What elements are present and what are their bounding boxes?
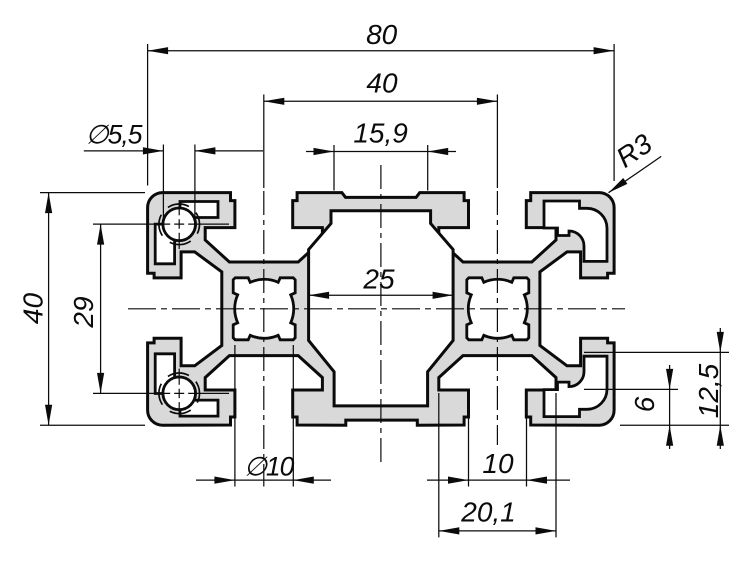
dim 40 top — [264, 100, 498, 102]
web bore right — [467, 278, 529, 340]
corner channel top-right — [544, 201, 607, 261]
svg-text:40: 40 — [18, 293, 49, 325]
dim 80 — [148, 50, 614, 52]
svg-text:10: 10 — [482, 448, 514, 479]
leader R3 — [609, 156, 662, 192]
centerline vertical middle — [380, 165, 382, 462]
profile silhouette — [148, 193, 614, 426]
corner bore circle — [163, 377, 196, 410]
svg-text:15,9: 15,9 — [353, 118, 408, 149]
bore centerlines — [178, 204, 180, 249]
dim 20.1 — [439, 530, 556, 532]
dim 15.9 — [306, 151, 456, 153]
svg-text:25: 25 — [362, 263, 395, 294]
web bore left — [233, 278, 295, 340]
dim 12.5 — [719, 328, 721, 449]
centerline slot left — [263, 191, 265, 487]
svg-text:12,5: 12,5 — [693, 363, 724, 418]
corner channel top-left — [155, 202, 218, 264]
dim 10 — [427, 479, 570, 481]
dim dia 10 — [196, 479, 331, 481]
central cavity — [309, 211, 454, 406]
corner channel bottom-right — [544, 356, 607, 416]
svg-text:∅5,5: ∅5,5 — [86, 120, 143, 150]
thread dashed arc — [151, 365, 208, 422]
corner bore circle — [163, 208, 196, 241]
thread dashed arc — [151, 196, 208, 253]
dim 29 — [100, 224, 102, 393]
dim 25 — [309, 294, 454, 296]
dim 6 — [669, 365, 671, 449]
centerline horizontal — [128, 308, 625, 310]
svg-text:80: 80 — [366, 19, 398, 50]
corner channel bottom-left — [155, 354, 218, 416]
svg-text:6: 6 — [629, 396, 660, 412]
svg-text:40: 40 — [366, 67, 398, 98]
svg-text:20,1: 20,1 — [460, 497, 516, 528]
dim 40 left — [48, 193, 50, 426]
svg-text:∅10: ∅10 — [244, 452, 295, 482]
dim dia 5.5 — [84, 150, 164, 152]
svg-text:29: 29 — [68, 296, 99, 328]
centerline slot right — [496, 191, 498, 445]
